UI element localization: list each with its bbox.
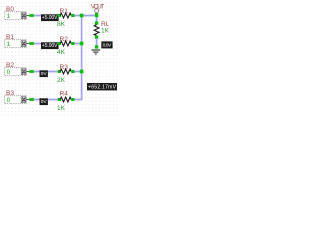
svg-text:0V: 0V (41, 71, 48, 77)
wire R2 right to bus junction (74, 43, 82, 45)
svg-text:1K: 1K (101, 27, 110, 34)
resistor RL body (94, 25, 99, 36)
resistor R2 body (60, 41, 71, 46)
pin VOUT terminal (95, 13, 98, 17)
pin ground top (95, 45, 98, 48)
digital source B3 body (5, 96, 27, 104)
svg-text:+5.00V: +5.00V (42, 15, 58, 21)
pin B3 out (29, 98, 33, 101)
wire VOUT terminal down to RL (96, 13, 98, 23)
ground symbol (91, 50, 100, 54)
resistor R2 left pin (58, 42, 61, 45)
svg-text:2K: 2K (57, 77, 66, 84)
svg-text:+5.00V: +5.00V (42, 43, 58, 49)
wire B3 output to resistor R4 (33, 99, 60, 101)
wire vertical bus to VOUT (81, 16, 83, 100)
digital source B0 toggle button (21, 13, 26, 19)
pin stub B2 (26, 71, 30, 73)
resistor R3 right pin (71, 70, 74, 73)
junction bus at R2 wire (80, 42, 84, 46)
resistor R1 left pin (58, 14, 61, 17)
svg-text:1K: 1K (57, 105, 66, 112)
pin stub B0 (26, 15, 30, 17)
resistor R3 left pin (58, 70, 61, 73)
wire R4 right to bus corner (74, 99, 82, 101)
pin B0 out (29, 14, 33, 17)
svg-text:4K: 4K (57, 49, 66, 56)
resistor R4 body (60, 97, 71, 102)
wire R3 right to bus junction (74, 71, 82, 73)
resistor R1 right pin (71, 14, 74, 17)
junction bus at R3 wire (80, 70, 84, 74)
pin B1 out (29, 42, 33, 45)
pin stub B3 (26, 99, 30, 101)
wire B2 output to resistor R3 (33, 71, 60, 73)
resistor R4 left pin (58, 98, 61, 101)
wire RL to ground (96, 38, 98, 47)
svg-text:0.0V: 0.0V (103, 43, 112, 49)
digital source B1 toggle button (21, 41, 26, 47)
digital source B2 toggle button (21, 69, 26, 75)
wire R1 right to node VOUT (74, 15, 97, 17)
junction bus top at R1 wire (80, 14, 84, 18)
voltage readout 0V on B2 wire (40, 70, 48, 77)
pin stub B1 (26, 43, 30, 45)
voltage readout +652.17mV at VOUT net (87, 83, 117, 90)
svg-text:R4: R4 (60, 91, 69, 98)
resistor R4 right pin (71, 98, 74, 101)
voltage readout 0V at ground (101, 41, 112, 48)
terminal VOUT circle (95, 9, 99, 13)
resistor RL top pin (95, 21, 98, 24)
svg-text:0V: 0V (41, 99, 48, 105)
svg-text:8K: 8K (57, 21, 66, 28)
voltage readout 0V on B3 wire (40, 98, 48, 105)
voltage readout +5.00V on B1 wire (41, 42, 59, 49)
voltage readout +5.00V on B0 wire (41, 14, 59, 21)
resistor RL bottom pin (95, 36, 98, 39)
pin B2 out (29, 70, 33, 73)
resistor R1 body (60, 13, 71, 18)
svg-text:+652.17mV: +652.17mV (88, 85, 117, 91)
digital source B0 body (5, 12, 27, 20)
grid background (0, 0, 120, 118)
resistor R2 right pin (71, 42, 74, 45)
wire B1 output to resistor R2 (33, 43, 60, 45)
digital source B1 body (5, 40, 27, 48)
digital source B3 toggle button (21, 97, 26, 103)
digital source B2 body (5, 68, 27, 76)
wire B0 output to resistor R1 (33, 15, 60, 17)
resistor R3 body (60, 69, 71, 74)
